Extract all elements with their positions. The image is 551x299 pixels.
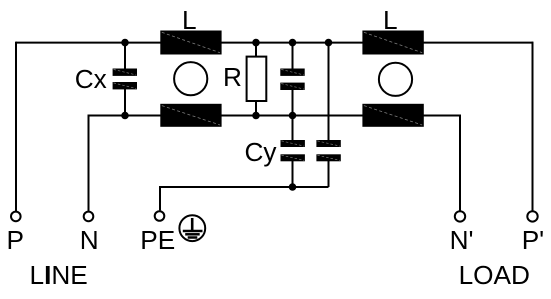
junction dot top C1 (289, 39, 297, 47)
wire N' vertical to terminal N' (459, 115, 461, 212)
wire Cy2 top stem (crosses N line) (328, 43, 330, 143)
wire top bus (P line) (16, 42, 533, 44)
wire C1 top stem (292, 43, 294, 71)
junction dot mid Cx (121, 112, 129, 120)
wire PE vertical to terminal PE (159, 186, 161, 210)
inductor L1 winding bottom (160, 104, 221, 127)
wire N vertical to terminal N (88, 115, 90, 212)
inductor L2 core circle (379, 63, 412, 96)
junction dot mid R (252, 112, 260, 120)
terminal PE circle (155, 211, 165, 221)
capacitor Cx plates (113, 69, 137, 90)
wire Cx bottom stem (124, 87, 126, 116)
inductor L1 core circle (174, 62, 207, 95)
junction dot top R (252, 39, 260, 47)
junction dot PE bus (289, 183, 297, 191)
wire middle bus (N line) (89, 115, 461, 117)
terminal P' circle (527, 211, 537, 221)
wire right vertical to terminal P' (532, 42, 534, 212)
wire Cy1 bottom stem (292, 158, 294, 187)
terminal N circle (84, 212, 94, 222)
svg-text:N': N' (450, 225, 474, 255)
inductor L1 winding top (160, 31, 221, 55)
junction dot top Cy2 (325, 39, 333, 47)
junction dot top Cx (121, 39, 129, 47)
capacitor C1 plates (line-to-line mid cap) (280, 69, 304, 91)
terminal P circle (11, 212, 21, 222)
wire Cy2 bottom stem (328, 158, 330, 187)
junction dot mid C1 (289, 112, 297, 120)
svg-text:Cy: Cy (245, 137, 278, 167)
svg-text:L: L (383, 5, 398, 35)
svg-text:P: P (7, 225, 24, 255)
capacitor Cy1 plates (281, 140, 305, 161)
inductor L2 winding top (362, 31, 423, 55)
svg-text:L: L (182, 5, 197, 35)
svg-text:R: R (223, 62, 242, 92)
svg-text:Cx: Cx (75, 64, 107, 94)
wire PE bus (earth line) (160, 186, 329, 188)
wire Cx top stem (124, 43, 126, 71)
wire R stem (255, 43, 257, 116)
capacitor Cy2 plates (316, 140, 340, 161)
svg-text:P': P' (522, 225, 544, 255)
svg-text:PE: PE (140, 225, 175, 255)
svg-text:LINE: LINE (30, 260, 88, 290)
svg-text:N: N (80, 225, 99, 255)
svg-text:LOAD: LOAD (459, 260, 530, 290)
terminal N' circle (455, 211, 465, 221)
wire left vertical to terminal P (15, 42, 17, 212)
wire C1 bottom stem (292, 87, 294, 116)
resistor R body (247, 57, 267, 101)
wire Cy1 top stem (292, 116, 294, 144)
inductor L2 winding bottom (362, 104, 423, 127)
protective earth symbol (179, 215, 205, 241)
